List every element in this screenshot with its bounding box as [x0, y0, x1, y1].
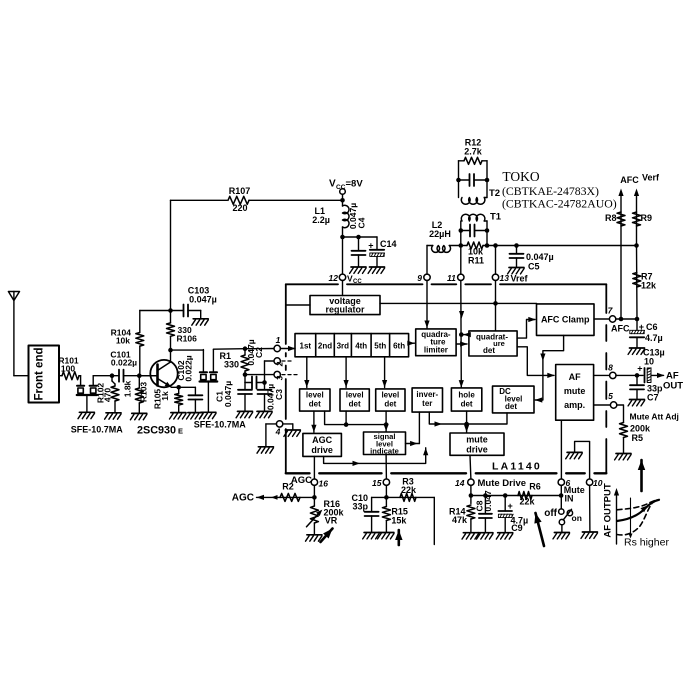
svg-text:C7: C7: [647, 393, 659, 403]
svg-text:C2: C2: [254, 347, 264, 358]
svg-text:indicate: indicate: [370, 446, 399, 455]
svg-text:5th: 5th: [374, 342, 386, 351]
svg-text:Verf: Verf: [642, 173, 660, 183]
svg-text:1: 1: [276, 335, 281, 345]
svg-text:Rs higher: Rs higher: [624, 537, 669, 549]
svg-text:12k: 12k: [641, 281, 657, 291]
svg-text:C6: C6: [646, 322, 658, 332]
svg-text:AFC: AFC: [620, 175, 639, 185]
svg-text:1st: 1st: [300, 342, 312, 351]
svg-text:=8V: =8V: [346, 179, 364, 190]
svg-text:IN: IN: [565, 494, 574, 504]
svg-text:level: level: [346, 391, 364, 400]
svg-text:det: det: [483, 346, 495, 355]
svg-text:mute: mute: [466, 435, 488, 445]
svg-text:R11: R11: [468, 256, 484, 266]
svg-text:0.047µ: 0.047µ: [526, 252, 554, 262]
svg-text:Front end: Front end: [34, 347, 46, 400]
svg-text:13: 13: [500, 273, 510, 283]
svg-text:2.2µ: 2.2µ: [312, 215, 330, 225]
svg-text:det: det: [349, 400, 361, 409]
svg-text:5: 5: [608, 391, 613, 401]
svg-text:2.7k: 2.7k: [464, 147, 483, 157]
svg-text:off: off: [544, 508, 557, 519]
svg-text:C4: C4: [357, 217, 367, 228]
svg-text:det: det: [384, 400, 396, 409]
svg-text:R103: R103: [139, 382, 149, 403]
svg-text:E: E: [178, 427, 183, 436]
svg-text:R107: R107: [229, 186, 251, 196]
svg-text:LA1140: LA1140: [492, 461, 542, 473]
svg-text:AFC: AFC: [611, 324, 630, 334]
svg-text:T2: T2: [489, 188, 500, 199]
svg-text:2nd: 2nd: [318, 342, 332, 351]
svg-text:47k: 47k: [452, 515, 468, 525]
svg-text:4th: 4th: [355, 342, 367, 351]
svg-text:+: +: [639, 322, 644, 332]
svg-text:8: 8: [608, 363, 613, 373]
svg-text:inver-: inver-: [416, 390, 438, 399]
svg-text:0.022µ: 0.022µ: [184, 355, 194, 381]
svg-text:470: 470: [103, 388, 113, 402]
svg-text:AGC: AGC: [291, 475, 312, 486]
svg-text:14: 14: [455, 478, 465, 488]
svg-text:Vref: Vref: [511, 274, 529, 284]
svg-text:3rd: 3rd: [337, 342, 350, 351]
svg-text:drive: drive: [466, 445, 488, 455]
svg-text:11: 11: [447, 273, 456, 283]
svg-text:16: 16: [319, 479, 329, 489]
svg-text:AFC Clamp: AFC Clamp: [541, 315, 590, 325]
svg-text:det: det: [505, 402, 517, 411]
svg-text:0.022µ: 0.022µ: [111, 358, 137, 368]
svg-text:T1: T1: [490, 212, 502, 223]
svg-text:limiter: limiter: [424, 346, 448, 355]
svg-text:22µH: 22µH: [429, 229, 451, 239]
svg-text:CC: CC: [336, 184, 346, 191]
svg-text:0.047µ: 0.047µ: [189, 295, 217, 305]
svg-text:SFE-10.7MA: SFE-10.7MA: [71, 424, 124, 434]
svg-text:R106: R106: [177, 334, 198, 344]
svg-text:0.047µ: 0.047µ: [223, 381, 233, 407]
svg-text:on: on: [572, 513, 582, 523]
svg-text:AF: AF: [569, 372, 581, 382]
svg-text:10k: 10k: [116, 336, 130, 346]
svg-text:9: 9: [417, 273, 422, 283]
svg-text:R6: R6: [529, 482, 541, 492]
svg-text:10: 10: [593, 478, 603, 488]
svg-text:ter: ter: [422, 399, 432, 408]
svg-text:C3: C3: [274, 389, 284, 400]
svg-text:3: 3: [276, 375, 285, 380]
svg-text:Mute Drive: Mute Drive: [478, 478, 527, 489]
svg-text:15k: 15k: [391, 516, 407, 526]
svg-text:22k: 22k: [401, 485, 417, 495]
svg-text:200k: 200k: [630, 424, 651, 434]
svg-text:C14: C14: [380, 239, 397, 249]
svg-text:+: +: [637, 364, 642, 374]
svg-text:R5: R5: [632, 433, 644, 443]
svg-text:R8: R8: [605, 213, 617, 223]
svg-text:4.7µ: 4.7µ: [645, 333, 663, 343]
svg-text:2SC930: 2SC930: [137, 425, 176, 437]
svg-text:AF OUTPUT: AF OUTPUT: [603, 483, 614, 538]
svg-text:mute: mute: [564, 386, 586, 396]
svg-text:drive: drive: [311, 445, 333, 455]
svg-text:hole: hole: [458, 391, 475, 400]
svg-text:AGC: AGC: [312, 435, 333, 445]
svg-text:33p: 33p: [352, 502, 368, 512]
svg-text:100: 100: [61, 364, 75, 374]
svg-text:330: 330: [224, 360, 239, 370]
svg-text:1.8k: 1.8k: [123, 380, 133, 397]
svg-text:SFE-10.7MA: SFE-10.7MA: [194, 420, 247, 430]
svg-text:4: 4: [275, 427, 281, 437]
svg-text:C5: C5: [528, 262, 540, 272]
svg-text:2: 2: [276, 361, 285, 367]
svg-text:R2: R2: [282, 482, 294, 492]
svg-text:V: V: [329, 179, 336, 190]
svg-text:OUT: OUT: [663, 381, 683, 392]
svg-text:0.047: 0.047: [483, 490, 493, 512]
svg-text:C9: C9: [511, 523, 523, 533]
svg-text:VR: VR: [325, 515, 338, 525]
svg-text:TOKO: TOKO: [502, 169, 540, 184]
svg-text:1k: 1k: [160, 391, 170, 401]
svg-text:22k: 22k: [519, 497, 535, 507]
svg-text:level: level: [306, 391, 324, 400]
svg-text:det: det: [461, 400, 473, 409]
svg-text:+: +: [508, 501, 513, 511]
svg-text:(CBTKAC-24782AUO): (CBTKAC-24782AUO): [502, 197, 617, 211]
svg-text:Mute Att Adj: Mute Att Adj: [630, 412, 679, 422]
svg-text:R9: R9: [641, 213, 653, 223]
svg-text:220: 220: [232, 203, 247, 213]
svg-text:15: 15: [372, 478, 382, 488]
svg-text:10: 10: [644, 357, 654, 367]
svg-text:12: 12: [329, 273, 339, 283]
svg-text:6th: 6th: [393, 342, 405, 351]
svg-text:det: det: [309, 400, 321, 409]
svg-text:level: level: [381, 391, 399, 400]
svg-text:regulator: regulator: [325, 305, 365, 315]
svg-text:amp.: amp.: [564, 400, 585, 410]
svg-text:AGC: AGC: [232, 493, 254, 504]
svg-text:+: +: [368, 241, 373, 251]
